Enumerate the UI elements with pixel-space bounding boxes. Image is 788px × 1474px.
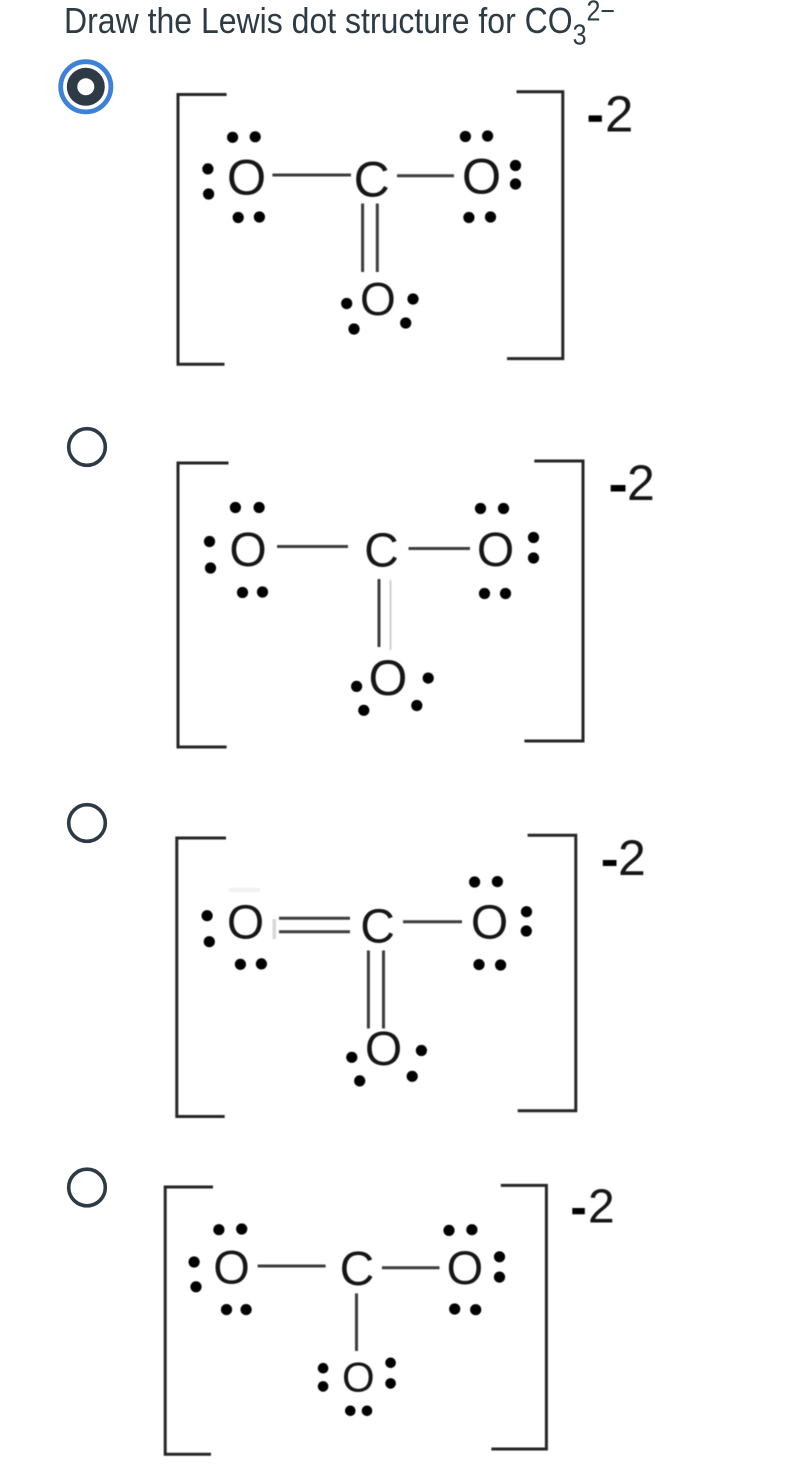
charge -2 [572, 1208, 585, 1214]
left bracket [178, 95, 227, 365]
faint artifact line [390, 580, 392, 650]
svg-text:O: O [477, 524, 514, 577]
double bond C=O down [367, 951, 370, 1029]
charge -2 [603, 860, 617, 866]
double bond O=C horizontal [279, 917, 350, 920]
right bracket [507, 92, 563, 359]
svg-text:O: O [365, 1023, 402, 1076]
single bond C-O down [355, 1293, 358, 1351]
svg-text:C: C [364, 525, 399, 578]
option 1 structure [178, 85, 633, 364]
svg-text:O: O [447, 1241, 484, 1294]
faint erased mark above left O [229, 888, 260, 892]
svg-text:C: C [340, 1243, 375, 1296]
artifact gray dash [273, 919, 277, 939]
single bond C-O down [378, 579, 381, 647]
lone pair dots bottom O [341, 298, 352, 309]
svg-text:O: O [368, 650, 407, 706]
lone pair dots right O [460, 131, 471, 142]
svg-text:O: O [462, 147, 501, 204]
question title [64, 2, 615, 38]
svg-text:2: 2 [618, 830, 646, 886]
svg-text:O: O [342, 1354, 375, 1401]
lone pair dots left O [202, 910, 213, 921]
bond O-C [277, 545, 348, 548]
double bond C=O down [361, 204, 364, 273]
lone pair dots bottom O [351, 681, 362, 692]
left bracket [165, 1187, 213, 1454]
svg-text:C: C [360, 901, 395, 954]
bond C-O [397, 174, 454, 177]
radio option 2 [69, 429, 106, 466]
svg-text:2: 2 [588, 1181, 615, 1234]
radio selected option 1 [61, 62, 111, 112]
svg-text:2: 2 [605, 85, 633, 142]
option 2 structure [178, 455, 655, 747]
right bracket [518, 835, 576, 1110]
radio option 3 [69, 805, 106, 842]
option 3 structure [177, 830, 646, 1117]
right bracket [524, 461, 583, 741]
lone pair dots left O [213, 1224, 224, 1235]
bond C-O [382, 1266, 440, 1269]
lone pair dots left O [230, 502, 241, 513]
lone pair dots right O [475, 503, 486, 514]
svg-text:O: O [227, 148, 266, 205]
svg-text:O: O [227, 896, 264, 949]
right bracket [491, 1185, 546, 1449]
svg-text:C: C [354, 152, 390, 208]
bond O-C [258, 1265, 326, 1268]
left bracket [177, 838, 226, 1117]
lone pair dots right O [443, 1225, 454, 1236]
bond C-O [403, 920, 462, 923]
svg-text:O: O [229, 524, 266, 577]
radio option 4 [69, 1169, 106, 1206]
option 4 structure [165, 1181, 615, 1455]
svg-text:O: O [213, 1241, 250, 1294]
left bracket [178, 463, 229, 747]
lone pair dots bottom O [318, 1363, 329, 1374]
lone pair dots right O [469, 876, 480, 887]
bond C-O [409, 547, 471, 550]
svg-text:2: 2 [627, 455, 655, 511]
svg-text:O: O [471, 896, 508, 949]
charge -2 [589, 115, 602, 121]
svg-text:O: O [360, 273, 396, 325]
lone pair dots bottom O [346, 1052, 357, 1063]
lone pair dots left O [227, 132, 238, 143]
bond O-C [272, 174, 351, 177]
charge -2 [611, 485, 626, 492]
